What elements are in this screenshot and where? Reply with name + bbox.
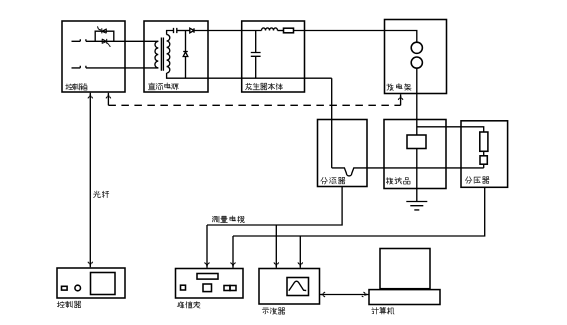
- measuring cable drops into 峰值表: [206, 225, 208, 268]
- impulse waveform on screen: [289, 281, 306, 291]
- block 控制器 (controller): [57, 268, 125, 298]
- dashed control line from 控制箱 to 放电架: [107, 93, 109, 106]
- wire: bottom line with switch S2 inside 控制箱 to transformer primary: [72, 66, 159, 68]
- capacitor C1 (series, on top line): [174, 28, 177, 33]
- wire: capacitor to diode D1: [177, 30, 190, 32]
- block 示波器 (oscilloscope): [259, 269, 320, 305]
- wire: diode D1 output to 发生器本体: [194, 30, 262, 32]
- block 发生器本体 (generator body): [242, 21, 305, 92]
- controller button rectangle: [62, 286, 68, 290]
- diode D1 (series, pointing right): [190, 28, 194, 33]
- block 分流器 (shunt): [318, 120, 368, 187]
- peak meter right squares: [224, 286, 230, 291]
- thyristor V2 (bottom, pointing right) with gate: [102, 39, 110, 47]
- wire: top line with switch S1 inside 控制箱: [72, 39, 159, 41]
- label 发生器本体: [246, 83, 283, 89]
- block 被试品 (test object): [384, 120, 446, 189]
- wire: secondary top to capacitor: [167, 31, 174, 35]
- block 控制箱 (control box): [62, 21, 125, 92]
- controller knob circle: [75, 285, 81, 291]
- label 计算机: [372, 307, 394, 314]
- wire: DUT node to divider top: [417, 127, 484, 132]
- resistor R1: [284, 28, 294, 33]
- resistor R2 (divider high arm): [480, 132, 488, 151]
- inductor L1: [262, 28, 278, 31]
- wire: capacitor C2 branch top: [255, 31, 257, 53]
- wire: divider output drop to measuring cable: [233, 187, 485, 236]
- thyristor V1 (top, pointing left) with gate: [98, 26, 107, 33]
- controller display: [91, 273, 116, 295]
- measuring cable drops into 示波器: [275, 225, 277, 268]
- resistor R3 (divider low arm): [480, 156, 487, 164]
- transformer T1 core: [161, 38, 163, 71]
- peak meter small square left: [181, 285, 186, 290]
- wire: bottom rail drop into shunt: [331, 78, 333, 168]
- computer base: [369, 290, 440, 305]
- transformer T1 primary winding: [155, 41, 158, 68]
- wire: DUT to ground: [416, 149, 418, 202]
- label 直流电源: [148, 83, 178, 90]
- block 直流电源 (DC power supply): [144, 21, 208, 92]
- fiber optic line 光纤 from 控制器 up to 控制箱: [89, 93, 91, 267]
- label 放电架: [387, 84, 411, 91]
- label 分压器: [465, 177, 489, 184]
- wire: inductor to resistor: [278, 30, 284, 32]
- label 峰值表: [177, 301, 200, 308]
- label 控制箱: [66, 84, 87, 90]
- wire: bottom ball down to DUT: [416, 68, 418, 135]
- wire: capacitor C2 branch bottom: [255, 56, 257, 78]
- wire: shunt diode branch vertical: [185, 31, 187, 79]
- sphere gap electrode (top ball): [411, 42, 422, 53]
- wire: resistor to sphere gap (top HV rail): [294, 31, 417, 43]
- label 被试品: [386, 178, 410, 184]
- block 计算机 (computer) monitor: [380, 249, 430, 289]
- ground: [406, 202, 427, 210]
- DUT component rectangle: [407, 135, 426, 149]
- label 测量电缆: [212, 216, 244, 223]
- label 光纤: [94, 191, 109, 198]
- peak meter display: [197, 274, 218, 280]
- wire: shunt output drop to measuring cable: [207, 187, 342, 226]
- link 示波器 to 计算机 (double arrow): [320, 294, 370, 296]
- block 峰值表 (peak voltmeter): [176, 269, 244, 299]
- sphere gap electrode (bottom ball): [411, 57, 422, 68]
- oscilloscope screen: [287, 278, 309, 296]
- label 控制器: [57, 301, 81, 307]
- wire: secondary bottom to bottom rail: [167, 73, 332, 78]
- capacitor C2: [251, 53, 261, 57]
- wire: divider junction: [483, 151, 485, 156]
- label 分流器: [321, 177, 345, 184]
- wire: divider low arm bottom to shunt line: [483, 164, 485, 168]
- block 分压器 (voltage divider): [461, 121, 508, 188]
- label 示波器: [262, 308, 285, 314]
- block 放电架 (discharge gap stand): [385, 20, 447, 94]
- peak meter middle square: [203, 284, 212, 292]
- transformer T1 secondary winding: [167, 35, 170, 73]
- shunt element with notch: [332, 168, 484, 176]
- diode D2 (shunt, pointing up): [183, 52, 188, 57]
- wire: thyristor bypass branch loop: [95, 31, 114, 41]
